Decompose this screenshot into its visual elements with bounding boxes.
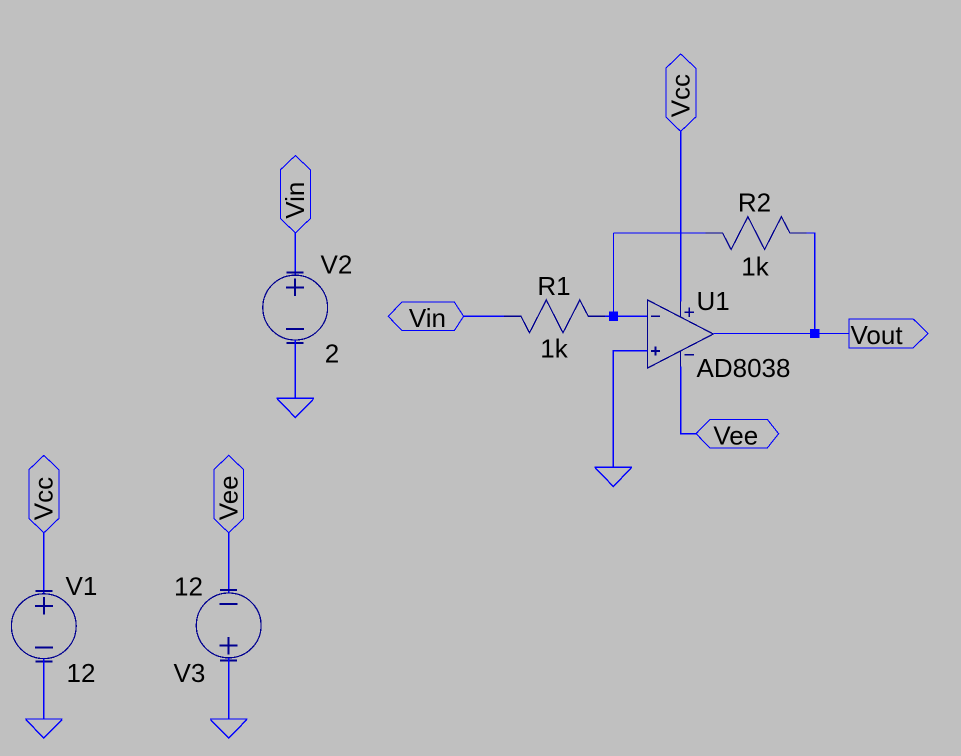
svg-text:Vcc: Vcc <box>665 74 695 117</box>
pin tick top <box>220 589 237 591</box>
ground (V1) <box>25 719 62 738</box>
ground (noninverting input) <box>595 467 632 486</box>
svg-text:V1: V1 <box>66 571 98 601</box>
plus mark <box>286 286 304 288</box>
flag Vee (op-amp supply) <box>696 419 779 450</box>
wire noninverting input to ground <box>613 351 647 468</box>
plus mark noninverting input <box>651 350 660 352</box>
svg-text:Vin: Vin <box>280 182 310 219</box>
svg-text:Vcc: Vcc <box>29 477 59 520</box>
plus mark <box>35 605 53 607</box>
svg-text:V2: V2 <box>321 250 353 280</box>
wire op-amp output to Vout <box>713 333 849 335</box>
wire R1 to node <box>605 315 648 317</box>
op-amp U1 <box>648 286 791 383</box>
wire Vin to R1 <box>464 315 505 317</box>
minus mark <box>35 647 53 649</box>
resistor R1 <box>504 271 606 364</box>
minus mark <box>286 328 304 330</box>
svg-text:Vin: Vin <box>409 303 446 333</box>
voltage source V2 <box>263 250 353 369</box>
resistor R2 <box>705 188 807 282</box>
pin tick top <box>287 271 304 273</box>
flag Vee (source V3) <box>213 455 243 532</box>
wire op-amp V- to Vee flag <box>681 367 697 434</box>
pin tick bottom <box>287 342 304 344</box>
ground (V2) <box>277 398 314 417</box>
wire V2 to ground <box>294 340 296 399</box>
svg-text:R2: R2 <box>738 188 771 218</box>
plus mark <box>220 645 238 647</box>
flag Vin (source V2) <box>280 156 310 233</box>
svg-text:U1: U1 <box>697 286 730 316</box>
wire V1 to ground <box>43 659 45 719</box>
ground (V3) <box>210 719 247 738</box>
svg-text:AD8038: AD8038 <box>697 353 791 383</box>
pin tick bottom <box>220 660 237 662</box>
svg-text:Vee: Vee <box>713 421 758 451</box>
pin stub V+ <box>680 301 682 317</box>
svg-text:12: 12 <box>67 658 96 688</box>
plus mark positive supply <box>685 311 694 313</box>
flag Vcc (source V1) <box>29 455 59 532</box>
wire feedback vertical <box>613 233 615 316</box>
svg-text:Vee: Vee <box>213 475 243 520</box>
flag Vout (output label) <box>849 319 928 350</box>
wire Vcc flag to op-amp <box>680 131 682 301</box>
wire feedback horizontal <box>614 232 706 234</box>
svg-text:12: 12 <box>174 572 203 602</box>
minus mark negative supply <box>685 354 694 356</box>
voltage source V1 <box>11 571 97 688</box>
flag Vcc (op-amp supply) <box>665 54 696 131</box>
flag Vin (input label) <box>388 302 463 333</box>
voltage source V3 <box>174 572 262 688</box>
junction node inverting input <box>609 312 618 321</box>
wire Vin flag to V2 <box>294 233 296 276</box>
minus mark <box>220 603 238 605</box>
pin tick top <box>35 590 52 592</box>
wire V3 to ground <box>228 658 230 719</box>
svg-text:2: 2 <box>325 339 339 369</box>
svg-text:1k: 1k <box>741 252 769 282</box>
svg-text:Vout: Vout <box>851 320 904 350</box>
pin tick bottom <box>35 660 52 662</box>
wire Vee flag to V3 <box>228 533 230 593</box>
svg-text:1k: 1k <box>540 333 568 363</box>
junction node output <box>810 329 819 338</box>
wire Vcc flag to V1 <box>43 533 45 594</box>
svg-text:V3: V3 <box>174 658 206 688</box>
wire R2 to output corner <box>807 233 815 333</box>
minus mark inverting input <box>651 315 660 317</box>
pin stub V- <box>680 351 682 367</box>
svg-text:R1: R1 <box>537 271 570 301</box>
